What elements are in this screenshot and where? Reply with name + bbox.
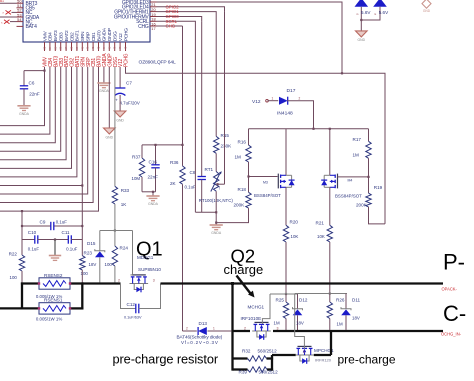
svg-text:MCHG1: MCHG1 bbox=[248, 305, 265, 310]
svg-text:200K: 200K bbox=[356, 203, 368, 208]
wire CB1 to left edge bbox=[0, 67, 93, 203]
svg-text:Vf=0.2V~0.3V: Vf=0.2V~0.3V bbox=[181, 340, 219, 345]
ground GNDA under R37/C16 bbox=[146, 195, 159, 197]
svg-text:22nF: 22nF bbox=[29, 92, 40, 97]
svg-text:R18: R18 bbox=[238, 187, 247, 192]
mosfet M4 BSS84P/SOT bbox=[329, 129, 331, 176]
thick bus C- rail bbox=[273, 330, 443, 332]
svg-text:CB3: CB3 bbox=[59, 32, 65, 41]
capacitor C16 22nF bbox=[155, 145, 157, 165]
svg-text:5.6V: 5.6V bbox=[379, 10, 389, 15]
svg-text:MDSG1: MDSG1 bbox=[137, 255, 154, 260]
svg-text:BAT4: BAT4 bbox=[26, 24, 38, 30]
resistor R39 560/2512 bbox=[233, 368, 248, 370]
svg-text:5.6V: 5.6V bbox=[361, 10, 371, 15]
wire GPIO0 column to C8 bbox=[201, 21, 203, 176]
capacitor C12 0.1uF/63V bbox=[121, 284, 136, 309]
svg-text:BAT2: BAT2 bbox=[64, 30, 70, 41]
svg-text:100: 100 bbox=[81, 271, 89, 276]
svg-text:RSENS1: RSENS1 bbox=[44, 298, 63, 303]
svg-text:18V: 18V bbox=[352, 316, 360, 321]
mosfet M3 BSS84P/SOT bbox=[285, 129, 287, 176]
svg-text:2: 2 bbox=[186, 326, 188, 330]
resistor R25 1M bbox=[285, 294, 287, 302]
svg-text:M3: M3 bbox=[263, 180, 268, 184]
svg-text:GNDA: GNDA bbox=[99, 89, 110, 93]
wire V12 to D17 bbox=[268, 100, 279, 102]
svg-text:GND: GND bbox=[358, 38, 366, 42]
zener protection 5.6V (right) bbox=[373, 0, 387, 7]
svg-text:R33: R33 bbox=[121, 188, 130, 193]
svg-text:1M: 1M bbox=[353, 153, 360, 158]
wire MCHG1 gate bbox=[262, 294, 270, 324]
svg-text:D15: D15 bbox=[87, 241, 96, 246]
IC right pin CHG bbox=[150, 25, 157, 27]
wire PCHG rail to right bbox=[126, 67, 386, 224]
wire SCRL column down bbox=[194, 26, 196, 212]
svg-text:560/2512: 560/2512 bbox=[258, 348, 278, 353]
wire BAT3 to left edge bbox=[0, 67, 55, 143]
zener D15 18V bbox=[99, 231, 101, 251]
svg-text:560/2512: 560/2512 bbox=[259, 369, 279, 374]
resistor R32 560/2512 bbox=[233, 357, 248, 359]
svg-text:1M: 1M bbox=[274, 321, 280, 326]
thick wire P- to MCHG1 drain bbox=[231, 282, 233, 370]
svg-text:GNDA: GNDA bbox=[19, 112, 30, 116]
wire CB4 to left edge bbox=[0, 67, 50, 134]
zener protection 5.6V (left) bbox=[355, 0, 369, 7]
svg-text:IRF1010E: IRF1010E bbox=[241, 316, 262, 321]
IC left pin CB5 bbox=[17, 7, 24, 9]
svg-text:R23: R23 bbox=[84, 250, 93, 255]
svg-text:10M: 10M bbox=[132, 176, 141, 181]
thick bus to Q1 bbox=[82, 282, 120, 284]
resistor R37 10M bbox=[141, 145, 143, 158]
wire CB3 to left edge bbox=[0, 67, 61, 151]
svg-text:0.1uF: 0.1uF bbox=[56, 220, 68, 225]
svg-text:BSS84P/SOT: BSS84P/SOT bbox=[335, 193, 362, 198]
svg-text:100: 100 bbox=[10, 275, 18, 280]
svg-text:3: 3 bbox=[277, 326, 279, 330]
svg-text:10K: 10K bbox=[317, 234, 325, 239]
no-connect X on pin 52 bbox=[12, 11, 17, 13]
wire GNDP pin down bbox=[108, 67, 110, 128]
svg-text:IN4148: IN4148 bbox=[277, 111, 293, 117]
capacitor C9 0.1uF bbox=[22, 225, 51, 227]
resistor R36 2K bbox=[182, 145, 184, 166]
arrow charge to MCHG1 bbox=[237, 276, 251, 294]
gate clamp node MPCHG1 bbox=[295, 293, 347, 295]
svg-text:P-: P- bbox=[443, 250, 465, 275]
svg-text:OCHG_IN-: OCHG_IN- bbox=[441, 332, 462, 337]
ground under C7 bbox=[114, 111, 126, 117]
svg-text:R26: R26 bbox=[336, 298, 345, 303]
svg-text:22nF: 22nF bbox=[148, 175, 159, 180]
thermistor RT1 RT100(10K,NTC) bbox=[214, 172, 219, 192]
capacitor C11 0.1uF bbox=[55, 239, 68, 241]
svg-text:VMV: VMV bbox=[42, 30, 48, 41]
svg-text:CHG: CHG bbox=[166, 24, 176, 29]
earth ground under C10/C11 bbox=[54, 238, 56, 240]
svg-text:2K: 2K bbox=[170, 181, 177, 186]
thermistor tap wire bbox=[224, 12, 226, 185]
svg-text:V12: V12 bbox=[252, 99, 261, 105]
svg-text:3: 3 bbox=[153, 278, 155, 282]
svg-text:GND: GND bbox=[106, 135, 114, 139]
svg-text:0.1uF: 0.1uF bbox=[28, 246, 40, 251]
ground GNDA under C6 bbox=[17, 105, 30, 107]
wire VMV to left edge bbox=[0, 67, 45, 126]
resistor R16 1M bbox=[248, 129, 250, 145]
svg-text:PCHG: PCHG bbox=[124, 53, 130, 67]
svg-text:BAT46(Schottky diode): BAT46(Schottky diode) bbox=[177, 335, 223, 340]
wire R37/C16 bottom bbox=[142, 191, 156, 193]
svg-text:0.1uF/63V: 0.1uF/63V bbox=[124, 316, 142, 320]
svg-text:GND: GND bbox=[116, 118, 124, 122]
wire R36 to D13 bbox=[182, 184, 184, 331]
resistor R26 1M bbox=[329, 294, 331, 303]
svg-text:R36: R36 bbox=[170, 160, 179, 165]
svg-text:CB1: CB1 bbox=[91, 32, 97, 41]
resistor R17 1M bbox=[368, 129, 370, 142]
svg-text:pre-charge resistor: pre-charge resistor bbox=[113, 351, 219, 366]
svg-text:0.1uF: 0.1uF bbox=[66, 246, 78, 251]
sense resistor RSENS1 0.005/1W 1% bbox=[21, 307, 39, 309]
IC right pin GPIO1/THERM1 bbox=[150, 11, 157, 13]
wire GPIO0 row bbox=[157, 17, 202, 22]
svg-text:M4: M4 bbox=[348, 178, 353, 182]
svg-text:1K: 1K bbox=[121, 202, 128, 207]
svg-text:IRFR120: IRFR120 bbox=[315, 357, 332, 362]
svg-text:R19: R19 bbox=[374, 185, 383, 190]
svg-text:R32: R32 bbox=[242, 348, 251, 353]
thick bus P- rail bbox=[161, 282, 444, 284]
svg-text:1: 1 bbox=[213, 326, 215, 330]
svg-text:t: t bbox=[219, 187, 220, 191]
svg-text:R17: R17 bbox=[353, 137, 362, 142]
svg-text:GND: GND bbox=[423, 9, 431, 13]
svg-text:BAT3: BAT3 bbox=[53, 30, 59, 41]
wire GPIO1 column to R15 bbox=[215, 17, 217, 137]
capacitor C10 0.1uF bbox=[21, 226, 23, 240]
IC left pin NC bbox=[17, 21, 24, 23]
svg-text:DSG: DSG bbox=[113, 31, 119, 41]
svg-text:1: 1 bbox=[272, 97, 274, 101]
resistor R33 1K bbox=[112, 186, 117, 204]
svg-text:0.005/1W 1%: 0.005/1W 1% bbox=[36, 316, 62, 321]
power symbol GND top right bbox=[422, 0, 431, 8]
svg-text:pre-charge: pre-charge bbox=[338, 353, 396, 367]
IC left pin BRT3 bbox=[17, 2, 24, 4]
wire CHG row bbox=[157, 25, 183, 27]
capacitor C6 bbox=[20, 85, 28, 87]
svg-text:D13: D13 bbox=[199, 321, 208, 326]
wire left pin BRT3 to edge bbox=[0, 2, 17, 4]
IC right pin SCRL bbox=[150, 20, 157, 22]
analog ground rail bbox=[195, 211, 216, 213]
wire SCRL row bbox=[157, 21, 196, 26]
svg-text:D12: D12 bbox=[299, 298, 308, 303]
resistor R20 10K bbox=[285, 187, 287, 225]
wire SRP to left edge bbox=[0, 67, 88, 194]
svg-text:BAT0: BAT0 bbox=[96, 30, 102, 41]
wire SRN to left edge bbox=[0, 67, 82, 185]
svg-text:R39: R39 bbox=[239, 369, 248, 374]
svg-text:D11: D11 bbox=[352, 298, 361, 303]
wire DSG column bbox=[114, 67, 116, 186]
wire M4 gate to R17/R19 bbox=[338, 176, 369, 178]
svg-text:OZ890/LQFP 64L: OZ890/LQFP 64L bbox=[139, 59, 176, 65]
svg-text:SRN: SRN bbox=[80, 31, 86, 41]
IC right pin GPIO0/THERMV bbox=[150, 16, 157, 18]
svg-text:OPACK-: OPACK- bbox=[442, 287, 458, 292]
IC right pin GPIO2/LED4 bbox=[150, 6, 157, 8]
wire CHG column down bbox=[182, 26, 184, 145]
IC U1 OZ890/LQFP 64L body bbox=[23, 0, 150, 42]
svg-text:1M: 1M bbox=[337, 322, 343, 327]
wire GPIO3 row to top right bbox=[157, 2, 343, 73]
svg-text:18V: 18V bbox=[296, 321, 304, 326]
svg-text:230K: 230K bbox=[221, 144, 233, 149]
resistor R21 10K bbox=[329, 187, 331, 225]
svg-text:C6: C6 bbox=[29, 81, 35, 86]
resistor R22 100 bbox=[21, 240, 23, 256]
svg-text:36: 36 bbox=[60, 46, 63, 49]
svg-text:200K: 200K bbox=[234, 203, 246, 208]
IC left pin NC bbox=[17, 11, 24, 13]
svg-text:C8: C8 bbox=[190, 170, 196, 175]
ground GNDP bbox=[104, 128, 116, 134]
diode D17 IN4148 bbox=[279, 97, 288, 105]
node R37/C16 top bbox=[142, 144, 183, 146]
diode D13 BAT46 Schottky bbox=[183, 330, 197, 332]
svg-text:+: + bbox=[115, 98, 118, 103]
IC left pin BAT4 bbox=[17, 25, 24, 27]
svg-text:0.1uF: 0.1uF bbox=[185, 184, 197, 189]
svg-text:V12: V12 bbox=[118, 33, 124, 41]
svg-text:RT1: RT1 bbox=[205, 167, 214, 172]
resistor R19 200K bbox=[368, 177, 370, 193]
wire BAT1 to left edge bbox=[0, 67, 77, 177]
wire R22 column bbox=[21, 211, 23, 226]
no-connect X on pin 54 bbox=[10, 21, 17, 23]
thick wire MPCHG1 source to C- bbox=[314, 354, 331, 356]
wire R18 bottom to ground rail bbox=[216, 222, 249, 224]
wire left pin GNDA to edge bbox=[0, 16, 17, 18]
svg-text:CB2: CB2 bbox=[69, 32, 75, 41]
svg-text:B1: B1 bbox=[0, 0, 4, 3]
svg-text:10K: 10K bbox=[291, 234, 299, 239]
wire GPIO1 row bbox=[157, 12, 217, 17]
thick wire pack negative entry bbox=[0, 307, 22, 309]
svg-text:PCHG: PCHG bbox=[123, 28, 129, 41]
wire GNDA pin to ground bbox=[103, 67, 105, 83]
wire BAT2 to left edge bbox=[0, 67, 66, 160]
gate clamp node MCHG1 bbox=[270, 293, 298, 295]
svg-text:CHG: CHG bbox=[138, 24, 149, 30]
svg-text:CB4: CB4 bbox=[48, 32, 54, 41]
wire M3 gate bbox=[249, 176, 278, 178]
svg-text:R37: R37 bbox=[132, 155, 141, 160]
svg-text:R16: R16 bbox=[238, 139, 247, 144]
svg-text:R20: R20 bbox=[290, 219, 299, 224]
svg-text:BAT1: BAT1 bbox=[75, 30, 81, 41]
svg-text:17: 17 bbox=[151, 26, 155, 31]
svg-text:2: 2 bbox=[299, 97, 301, 101]
capacitor C7 4.7uF/20V bbox=[115, 87, 126, 89]
svg-text:3: 3 bbox=[303, 350, 305, 354]
ground under zeners bbox=[356, 31, 368, 37]
capacitor C8 0.1uF bbox=[198, 176, 206, 178]
wire V12 pin to C7 bbox=[119, 67, 121, 88]
svg-text:R25: R25 bbox=[276, 298, 285, 303]
ground GNDA under RT1 bbox=[210, 224, 223, 226]
wire BAT0 to left edge bbox=[0, 67, 99, 211]
svg-text:GNDA: GNDA bbox=[102, 27, 108, 41]
svg-text:C16: C16 bbox=[149, 160, 158, 165]
svg-text:R24: R24 bbox=[120, 245, 129, 250]
thick wire left vertical bbox=[21, 282, 23, 309]
svg-text:2: 2 bbox=[118, 278, 120, 282]
node wire Q1 gate drive bbox=[100, 230, 133, 232]
svg-text:GNDP: GNDP bbox=[107, 28, 113, 41]
svg-text:SRP: SRP bbox=[86, 32, 92, 41]
thick wire right vertical bbox=[81, 282, 83, 309]
ground GNDA (IC pin) bbox=[97, 82, 110, 84]
thick wire R32/R39 right junction bbox=[271, 355, 273, 371]
resistor R24 100 bbox=[114, 231, 116, 247]
svg-text:GNDA: GNDA bbox=[211, 231, 222, 235]
svg-text:C10: C10 bbox=[28, 230, 37, 235]
svg-text:1M: 1M bbox=[235, 155, 242, 160]
svg-text:GNDA: GNDA bbox=[148, 202, 159, 206]
svg-text:C11: C11 bbox=[62, 230, 71, 235]
svg-text:RSENS2: RSENS2 bbox=[44, 273, 63, 278]
sense resistor RSENS2 0.005/1W 1% bbox=[21, 282, 39, 284]
svg-text:C9: C9 bbox=[40, 220, 46, 225]
wire GPIO2 row bbox=[157, 7, 225, 12]
svg-text:2: 2 bbox=[244, 326, 246, 330]
wire MPCHG1 gate path bbox=[295, 294, 305, 350]
svg-text:BSS84P/SOT: BSS84P/SOT bbox=[254, 193, 281, 198]
resistor R23 100 bbox=[81, 240, 83, 256]
IC left pin GNDA bbox=[17, 16, 24, 18]
svg-text:R22: R22 bbox=[9, 251, 18, 256]
resistor R18 200K bbox=[248, 177, 250, 193]
resistor R15 230K bbox=[214, 136, 219, 153]
svg-text:C12: C12 bbox=[127, 302, 136, 307]
svg-text:charge: charge bbox=[224, 262, 264, 277]
svg-text:SUP85N10: SUP85N10 bbox=[138, 267, 161, 272]
mosfet MPCHG1 IRFR120 (pre-charge FET) bbox=[295, 354, 314, 356]
svg-text:18V: 18V bbox=[89, 262, 97, 267]
wire R19 bottom to PCHG rail bbox=[369, 207, 386, 224]
wire CB2 to left edge bbox=[0, 67, 72, 168]
svg-text:C-: C- bbox=[443, 301, 466, 326]
svg-text:D17: D17 bbox=[287, 88, 296, 94]
wire SRN column to C9 node bbox=[81, 186, 83, 227]
svg-text:C7: C7 bbox=[126, 80, 132, 85]
wire D17 cathode to rail bbox=[287, 101, 314, 129]
IC right pin GPIO3/LED3 bbox=[150, 1, 157, 3]
zener D12 18V bbox=[297, 294, 299, 309]
zener D11 18V bbox=[345, 294, 347, 309]
gate-high rail bbox=[249, 128, 369, 130]
svg-text:R21: R21 bbox=[316, 220, 325, 225]
wire VMV branch to C6 bbox=[24, 70, 45, 72]
svg-text:100: 100 bbox=[105, 262, 113, 267]
svg-text:4.7uF/20V: 4.7uF/20V bbox=[120, 100, 140, 105]
